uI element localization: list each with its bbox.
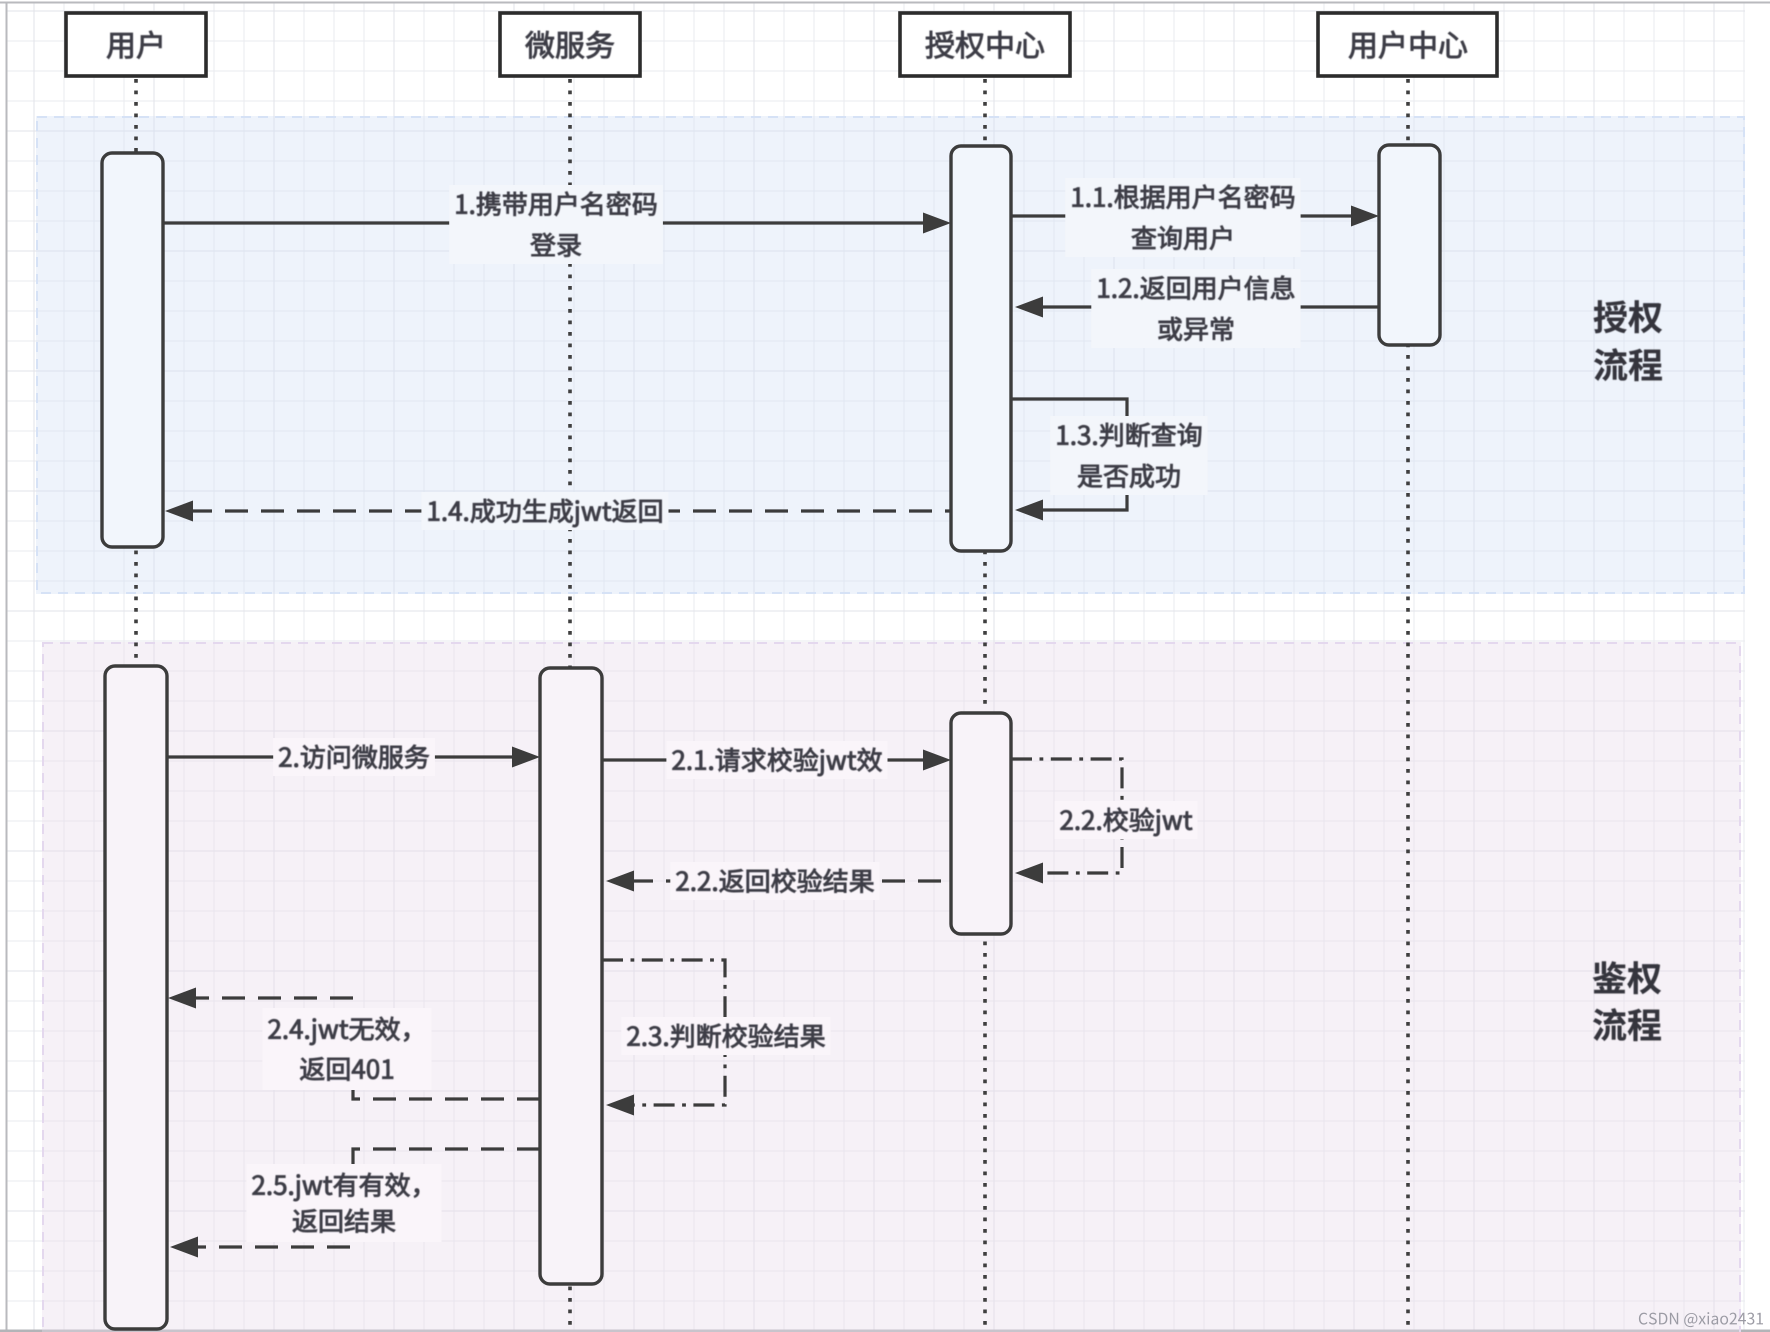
activation 用户 (授权流程) [102,153,163,547]
lifeline 授权中心 [983,79,987,1330]
activation 授权中心 (鉴权流程) [951,713,1011,934]
label message 2.2 返回校验结果 [670,862,879,900]
actor 微服务 [500,13,640,76]
lifeline 微服务 [568,79,572,1330]
activation 授权中心 (授权流程) [951,146,1011,551]
label message 2.3 [621,1017,830,1055]
label message 2.4 [262,1008,431,1090]
message 1 携带用户名密码登录 (solid arrow 用户→授权中心) [163,213,951,234]
label message 1.4 [421,492,668,530]
label message 1.3 [1050,416,1207,495]
activation 用户 (鉴权流程) [105,666,167,1329]
message 2.2 校验jwt (dash-dot self-loop on 授权中心) [1011,759,1122,884]
message 1.2 返回用户信息或异常 (solid arrow 用户中心→授权中心) [1015,297,1379,318]
label message 2 [273,738,435,776]
label 鉴权流程 (authentication flow, bold) [1593,961,1661,1041]
activation 用户中心 [1379,145,1440,345]
label 授权流程 (authorization flow, bold) [1594,300,1662,381]
message 1.3 判断查询是否成功 (solid self-loop on 授权中心) [1011,399,1127,521]
label message 1.1 [1065,178,1300,257]
message 2.3 判断校验结果 (dash-dot self-loop on 微服务) [602,960,725,1116]
lifeline 用户中心 [1406,79,1410,1330]
label message 2.5 [246,1164,441,1242]
activation 微服务 [540,668,602,1284]
label message 2.2 校验jwt [1054,801,1197,839]
label message 1.2 [1091,269,1300,348]
label message 1 [449,185,663,264]
actor 用户中心 [1318,13,1497,76]
watermark CSDN @xiao2431 [1639,1312,1763,1327]
message 2.2 返回校验结果 (dashed arrow 授权中心→微服务) [606,871,951,892]
message 1.4 成功生成jwt返回 (dashed arrow 授权中心→用户) [165,501,951,522]
message 2.5 jwt有有效返回结果 (dashed stepped arrow 微服务→用户) [170,1149,540,1258]
message 2 访问微服务 (solid arrow 用户→微服务) [167,747,540,768]
message 2.4 jwt无效返回401 (dashed stepped arrow 微服务→用户) [168,988,540,1100]
region: 授权流程 authorization flow (blue band) [36,116,1745,594]
actor 授权中心 [900,13,1070,76]
region: 鉴权流程 authentication flow (pink band) [42,642,1741,1332]
message 2.1 请求校验jwt效 (solid arrow 微服务→授权中心) [602,750,951,771]
actor 用户 [66,13,206,76]
lifeline 用户 [134,79,138,1330]
message 1.1 根据用户名密码查询用户 (solid arrow 授权中心→用户中心) [1011,206,1379,227]
label message 2.1 [666,741,887,779]
